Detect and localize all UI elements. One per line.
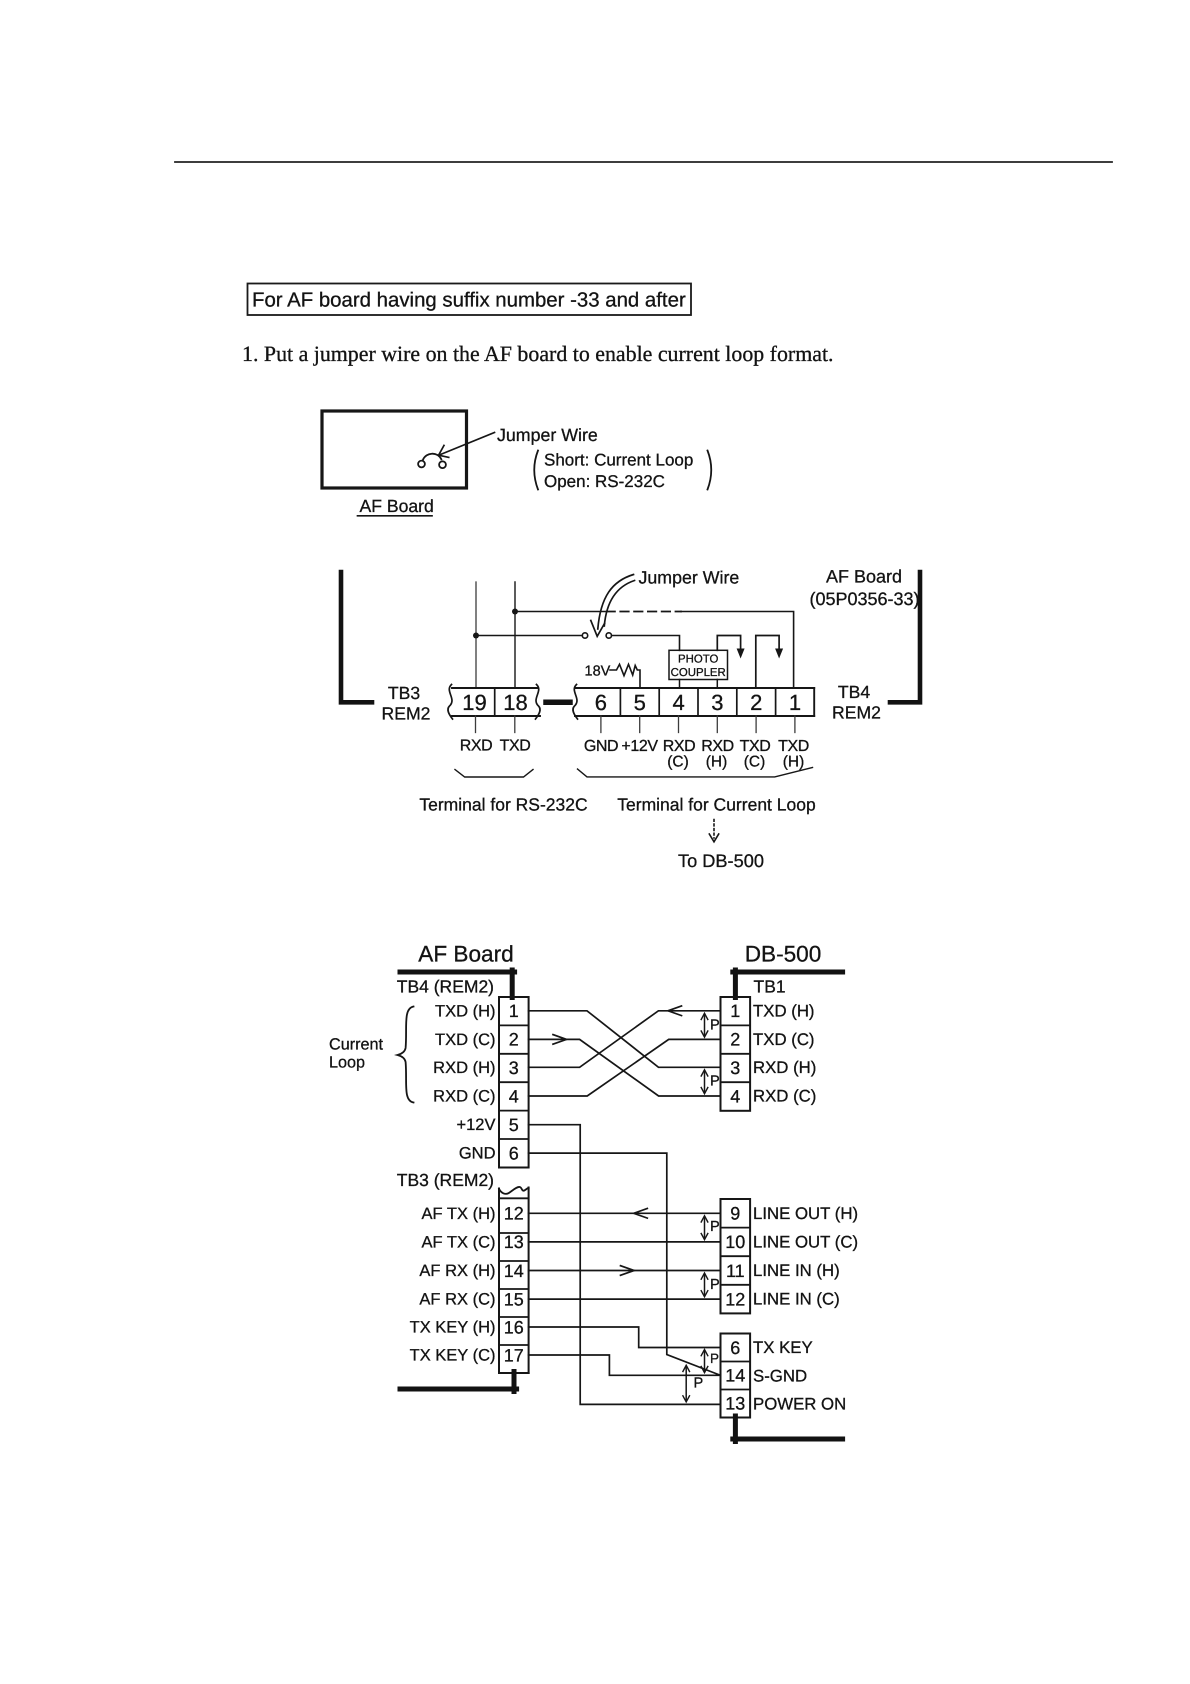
svg-text:+12V: +12V [457,1116,496,1134]
svg-text:RXD: RXD [701,738,734,755]
current loop brace [398,1007,414,1103]
svg-text:POWER ON: POWER ON [753,1394,846,1413]
svg-text:DB-500: DB-500 [745,942,822,967]
svg-text:REM2: REM2 [832,703,881,723]
svg-text:COUPLER: COUPLER [671,667,726,679]
label TXD (H) [778,738,809,771]
svg-text:+12V: +12V [621,738,658,755]
thick link bar between TB3 and TB4 [546,700,570,706]
wire AF1 to DB3 [529,1011,721,1068]
svg-text:1: 1 [509,1001,519,1021]
terminal strip TB1 upper (DB side, pins 1-4) [721,997,751,1111]
flow arrow on AF2 wire [553,1035,567,1045]
board frame bracket right [890,572,920,702]
brace current loop group [578,768,813,777]
svg-text:4: 4 [672,690,684,715]
wire AF14 to DB11 [529,1270,721,1272]
svg-text:6: 6 [595,690,607,715]
board frame bracket left [341,572,372,702]
pin stub 2 [755,716,757,733]
svg-text:16: 16 [504,1318,524,1338]
dotted arrow to DB-500 [709,820,718,842]
svg-text:AF Board: AF Board [418,942,513,967]
wire junction19 to jumper switch [476,635,582,637]
label AF Board (diagram 1, underlined) [358,496,434,516]
svg-text:11: 11 [726,1261,745,1281]
photocoupler U1 box [669,650,728,679]
jumper wire arc [423,454,441,460]
svg-text:For AF board having suffix num: For AF board having suffix number -33 an… [252,290,686,312]
svg-text:9: 9 [730,1204,740,1224]
svg-text:TXD (H): TXD (H) [435,1002,496,1020]
svg-text:(H): (H) [783,754,805,771]
svg-text:P: P [710,1018,720,1034]
svg-text:3: 3 [711,690,723,715]
svg-text:TXD (C): TXD (C) [753,1030,815,1049]
twisted pair arrow DB1-DB2 [701,1013,708,1037]
svg-text:17: 17 [504,1346,524,1366]
resistor 18V feed [610,664,640,688]
jumper wire pointer arrow [439,433,495,458]
brace RS-232C group [455,770,533,778]
svg-text:AF TX (C): AF TX (C) [422,1233,496,1251]
svg-text:RXD (C): RXD (C) [753,1087,816,1106]
pin stub 6 [600,716,602,733]
svg-text:P: P [710,1074,720,1090]
svg-text:P: P [710,1219,720,1235]
pin stub 3 [716,716,718,733]
current flow arrow from photocoupler [717,636,744,659]
svg-text:5: 5 [634,690,646,715]
svg-text:1. Put a jumper wire on the AF: 1. Put a jumper wire on the AF board to … [242,341,834,366]
svg-text:4: 4 [730,1086,740,1106]
pin stub 1 [794,716,796,733]
svg-text:PHOTO: PHOTO [678,653,718,665]
right parenthesis [708,451,712,490]
svg-text:13: 13 [725,1394,745,1414]
wire from TB3 pin 18 up [514,582,516,688]
wire AF3 to DB1 [529,1011,721,1068]
svg-text:Short: Current Loop: Short: Current Loop [544,451,693,470]
svg-text:TXD (C): TXD (C) [435,1031,496,1049]
svg-text:(C): (C) [667,754,689,771]
svg-text:TXD (H): TXD (H) [753,1001,815,1020]
svg-text:TB3: TB3 [388,683,420,703]
wire solid segment to TB4 pin 1 [681,612,794,689]
svg-text:AF Board: AF Board [360,496,434,516]
callout box: For AF board having suffix number -33 and after [248,284,692,316]
label TXD (C) [740,738,771,771]
svg-text:RXD (H): RXD (H) [753,1058,816,1077]
svg-text:RXD (H): RXD (H) [433,1059,495,1077]
svg-text:AF RX (H): AF RX (H) [419,1262,495,1280]
terminal block TB3 [448,685,540,720]
twisted pair arrow DB3-DB4 [701,1070,708,1094]
svg-text:14: 14 [725,1366,745,1386]
svg-text:2: 2 [750,690,762,715]
flow arrow on DB1 wire [668,1006,682,1016]
wire photocoupler to TB4 pin 3 [716,680,718,689]
AF board bottom bracket [400,1372,517,1392]
svg-text:Terminal for Current Loop: Terminal for Current Loop [617,795,815,815]
svg-text:2: 2 [509,1030,519,1050]
svg-text:TB1: TB1 [754,977,786,997]
svg-text:Terminal for RS-232C: Terminal for RS-232C [419,795,587,815]
terminal strip TB4 (AF side, pins 1-6) [499,997,529,1168]
DB-500 title bar [733,970,843,998]
wire AF2 to DB4 [529,1039,721,1096]
wire switch to photocoupler top [612,636,680,651]
svg-text:(05P0356-33): (05P0356-33) [809,589,919,609]
twisted pair arrow DB6-DB14 [701,1350,708,1373]
jumper post pin A [418,461,425,468]
terminal strip TB1 lower (DB side, pins 6,14,13) [721,1334,751,1418]
svg-text:Open: RS-232C: Open: RS-232C [544,472,665,491]
wire AF13 to DB10 [529,1241,721,1243]
wire GND to S-GND [529,1153,721,1375]
svg-text:14: 14 [504,1261,524,1281]
top rule [175,161,1112,163]
flow arrow on AF14 wire [621,1266,635,1276]
junction node on pin 18 wire [512,609,518,615]
jumper switch contact left [582,633,587,638]
svg-text:Jumper Wire: Jumper Wire [497,425,598,445]
jumper post pin B [439,461,446,468]
svg-text:GND: GND [584,738,618,755]
svg-text:1: 1 [730,1001,740,1021]
terminal strip TB1 middle (DB side, pins 9-12) [721,1199,751,1313]
label RXD (C) [663,738,696,771]
svg-text:5: 5 [509,1115,519,1135]
svg-text:12: 12 [725,1289,745,1309]
svg-text:TB3 (REM2): TB3 (REM2) [397,1170,494,1190]
svg-text:P: P [710,1351,719,1366]
wire AF12 to DB9 [529,1212,721,1214]
svg-text:6: 6 [509,1143,519,1163]
junction node on pin 19 wire [473,633,479,639]
svg-text:TX KEY (C): TX KEY (C) [410,1347,496,1365]
svg-text:Current: Current [329,1036,383,1054]
svg-text:RXD (C): RXD (C) [433,1088,495,1106]
svg-text:LINE OUT (C): LINE OUT (C) [753,1232,858,1251]
svg-text:3: 3 [509,1058,519,1078]
svg-text:P: P [694,1375,704,1391]
svg-text:RXD: RXD [460,738,493,755]
svg-text:S-GND: S-GND [753,1366,807,1385]
wire dashed segment (open jumper alternative) [607,611,682,613]
svg-text:AF TX (H): AF TX (H) [422,1205,496,1223]
twisted pair arrow DB11-DB12 [701,1273,708,1297]
svg-text:TXD: TXD [500,738,531,755]
svg-text:19: 19 [462,690,486,715]
pin stub 19 [475,716,477,733]
curled jumper-wire arrow [591,575,635,637]
svg-text:15: 15 [504,1289,524,1309]
svg-text:Jumper Wire: Jumper Wire [639,568,740,588]
svg-text:AF RX (C): AF RX (C) [419,1291,495,1309]
svg-text:LINE IN (H): LINE IN (H) [753,1261,840,1280]
wire AF15 to DB12 [529,1298,721,1300]
AF board title bar [400,970,515,998]
svg-text:1: 1 [789,690,801,715]
wire AF4 to DB2 [529,1039,721,1096]
DB-500 bottom bracket [733,1416,843,1442]
svg-text:TXD: TXD [740,738,771,755]
svg-text:13: 13 [504,1232,524,1252]
wire TX KEY (C) to S-GND [529,1355,721,1375]
label RXD (H) [701,738,734,771]
svg-text:RXD: RXD [663,738,696,755]
pin stub 18 [514,716,516,733]
wire photocoupler to TB4 pin 4 [679,680,681,689]
pin stub 4 [678,716,680,733]
svg-text:18: 18 [503,690,527,715]
svg-text:2: 2 [730,1030,740,1050]
svg-text:GND: GND [459,1145,496,1163]
twisted pair arrow DB9-DB10 [701,1216,708,1240]
current flow arrow from TB4 pin 2 [756,636,783,689]
svg-text:AF Board: AF Board [826,567,902,587]
svg-text:TX KEY (H): TX KEY (H) [410,1319,496,1337]
wire TX KEY (H) to DB6 [529,1327,721,1348]
svg-text:12: 12 [504,1204,524,1224]
svg-text:REM2: REM2 [382,704,431,724]
twisted pair arrow S-GND/POWER ON [683,1365,690,1402]
svg-text:TB4: TB4 [838,682,870,702]
svg-text:(C): (C) [744,754,766,771]
svg-text:LINE IN (C): LINE IN (C) [753,1290,840,1309]
svg-text:To DB-500: To DB-500 [678,851,764,871]
pin stub 5 [639,716,641,733]
svg-text:4: 4 [509,1086,519,1106]
svg-text:3: 3 [730,1058,740,1078]
flow arrow on AF12 wire [634,1209,648,1219]
svg-text:LINE OUT (H): LINE OUT (H) [753,1204,858,1223]
svg-text:TXD: TXD [778,738,809,755]
svg-text:10: 10 [725,1232,745,1252]
svg-text:6: 6 [730,1338,740,1358]
svg-text:(H): (H) [706,754,728,771]
terminal strip TB3 (AF side, pins 12-17) [499,1187,529,1373]
svg-text:P: P [710,1277,720,1293]
wire junction18 solid segment [515,611,605,613]
svg-text:Loop: Loop [329,1054,365,1072]
AF board outline [322,411,467,488]
svg-text:TB4 (REM2): TB4 (REM2) [397,977,494,997]
terminal block TB4 [573,685,814,720]
wire from TB3 pin 19 up [475,582,477,688]
left parenthesis [534,451,538,490]
label Current Loop [329,1036,383,1072]
wire +12V to POWER ON [529,1125,721,1405]
jumper switch contact right [606,633,611,638]
svg-text:TX KEY: TX KEY [753,1338,813,1357]
svg-text:18V: 18V [585,664,611,680]
